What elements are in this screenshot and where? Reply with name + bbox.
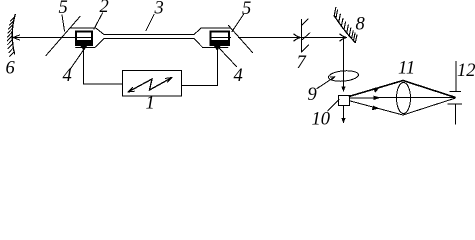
svg-text:2: 2 <box>100 0 109 17</box>
svg-text:1: 1 <box>146 94 155 114</box>
svg-text:10: 10 <box>312 110 331 130</box>
svg-text:3: 3 <box>154 0 164 19</box>
svg-text:5: 5 <box>59 0 68 18</box>
svg-text:4: 4 <box>63 66 72 86</box>
svg-text:6: 6 <box>6 59 16 79</box>
svg-text:5: 5 <box>242 0 251 19</box>
svg-text:4: 4 <box>234 66 243 86</box>
svg-text:12: 12 <box>457 61 475 81</box>
svg-text:7: 7 <box>297 53 307 73</box>
svg-text:9: 9 <box>308 85 317 105</box>
svg-text:8: 8 <box>356 15 366 35</box>
svg-text:11: 11 <box>398 59 415 79</box>
